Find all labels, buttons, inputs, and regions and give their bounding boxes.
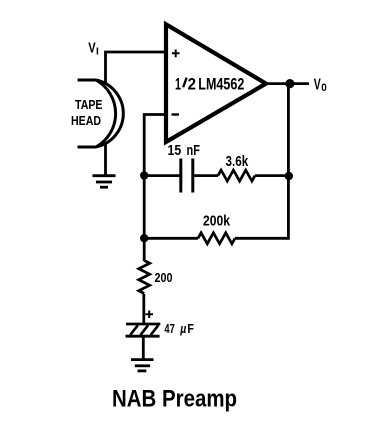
svg-text:V: V xyxy=(88,40,95,57)
wire input corner VI to op-amp + input xyxy=(106,52,166,83)
op-amp U1 1/2 LM4562 xyxy=(166,24,266,142)
wire right rail down and to R2 xyxy=(235,84,288,239)
ground (C2) xyxy=(131,360,154,371)
wire R3 to C2 xyxy=(142,294,145,323)
svg-text:200k: 200k xyxy=(203,213,231,230)
wire R2 to junction B xyxy=(144,237,198,240)
svg-text:I: I xyxy=(96,45,99,57)
node output junction xyxy=(285,79,294,88)
wire junction A to C1 xyxy=(144,174,180,177)
wire op-amp output xyxy=(266,82,309,85)
node junction C (right rail / C1-R1 branch) xyxy=(285,172,293,180)
resistor R1 3.6k xyxy=(218,170,255,181)
tape head transducer xyxy=(78,80,124,147)
resistor R3 200 xyxy=(139,261,150,294)
capacitor C1 15 nF xyxy=(181,159,193,193)
wire R1 to right rail xyxy=(255,174,290,177)
op-amp triangle body xyxy=(166,24,266,142)
svg-text:47: 47 xyxy=(164,321,174,336)
node junction A (feedback / C1 branch) xyxy=(140,171,148,179)
svg-text:3.6k: 3.6k xyxy=(226,153,249,170)
svg-text:NAB Preamp: NAB Preamp xyxy=(112,385,237,412)
svg-text:2: 2 xyxy=(188,76,196,94)
wire op-amp inverting input down the left feedback rail xyxy=(144,115,166,262)
node VI label xyxy=(88,40,99,58)
svg-text:TAPE: TAPE xyxy=(75,98,103,112)
polarity + of C2 xyxy=(146,311,154,319)
svg-text:F: F xyxy=(187,321,194,336)
wire C2 to ground xyxy=(142,336,145,359)
pin + non-inverting input xyxy=(172,50,180,58)
wire C1 to R1 xyxy=(193,174,218,177)
pin - inverting input xyxy=(172,113,180,115)
svg-text:V: V xyxy=(314,77,321,94)
node VO label xyxy=(314,77,327,94)
svg-text:HEAD: HEAD xyxy=(71,114,101,128)
label 47 uF xyxy=(164,321,194,336)
node junction B (left rail / R2 branch) xyxy=(140,234,148,242)
tape head label xyxy=(71,98,103,128)
svg-text:LM4562: LM4562 xyxy=(198,76,244,94)
svg-text:15: 15 xyxy=(168,142,182,159)
svg-text:0: 0 xyxy=(321,82,327,94)
svg-text:µ: µ xyxy=(179,321,186,336)
capacitor C2 47uF electrolytic xyxy=(126,324,161,336)
svg-text:200: 200 xyxy=(155,270,173,285)
wire tape head to ground xyxy=(104,145,107,176)
svg-text:nF: nF xyxy=(187,142,200,159)
resistor R2 200k xyxy=(198,233,235,244)
ground (tape head) xyxy=(93,176,116,188)
svg-text:1: 1 xyxy=(175,76,181,94)
